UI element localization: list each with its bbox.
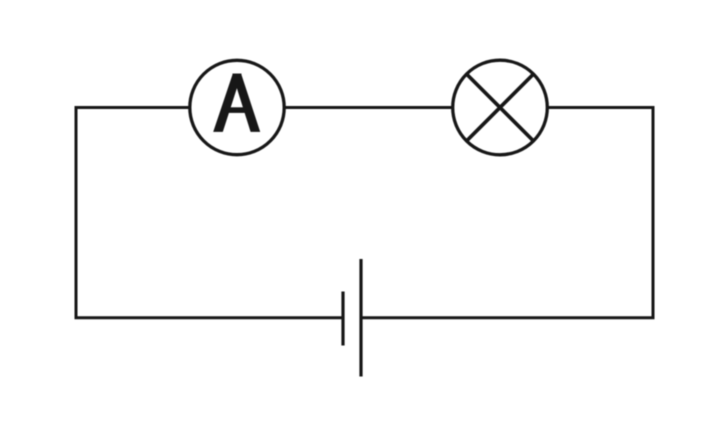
lamp cross	[467, 74, 534, 141]
wire: ammeter left lead, left side of loop, bottom wire to battery negative plate	[76, 108, 343, 318]
battery cell B1: long positive plate	[359, 259, 362, 377]
ammeter U1	[190, 60, 284, 154]
lamp L1	[453, 60, 548, 155]
wire: top segment between ammeter and lamp	[284, 106, 453, 109]
wire: battery positive plate to bottom-right corner, right side of loop, lamp right lead	[361, 108, 653, 318]
battery cell B1: short negative plate	[341, 292, 344, 346]
ammeter label A	[213, 74, 260, 132]
